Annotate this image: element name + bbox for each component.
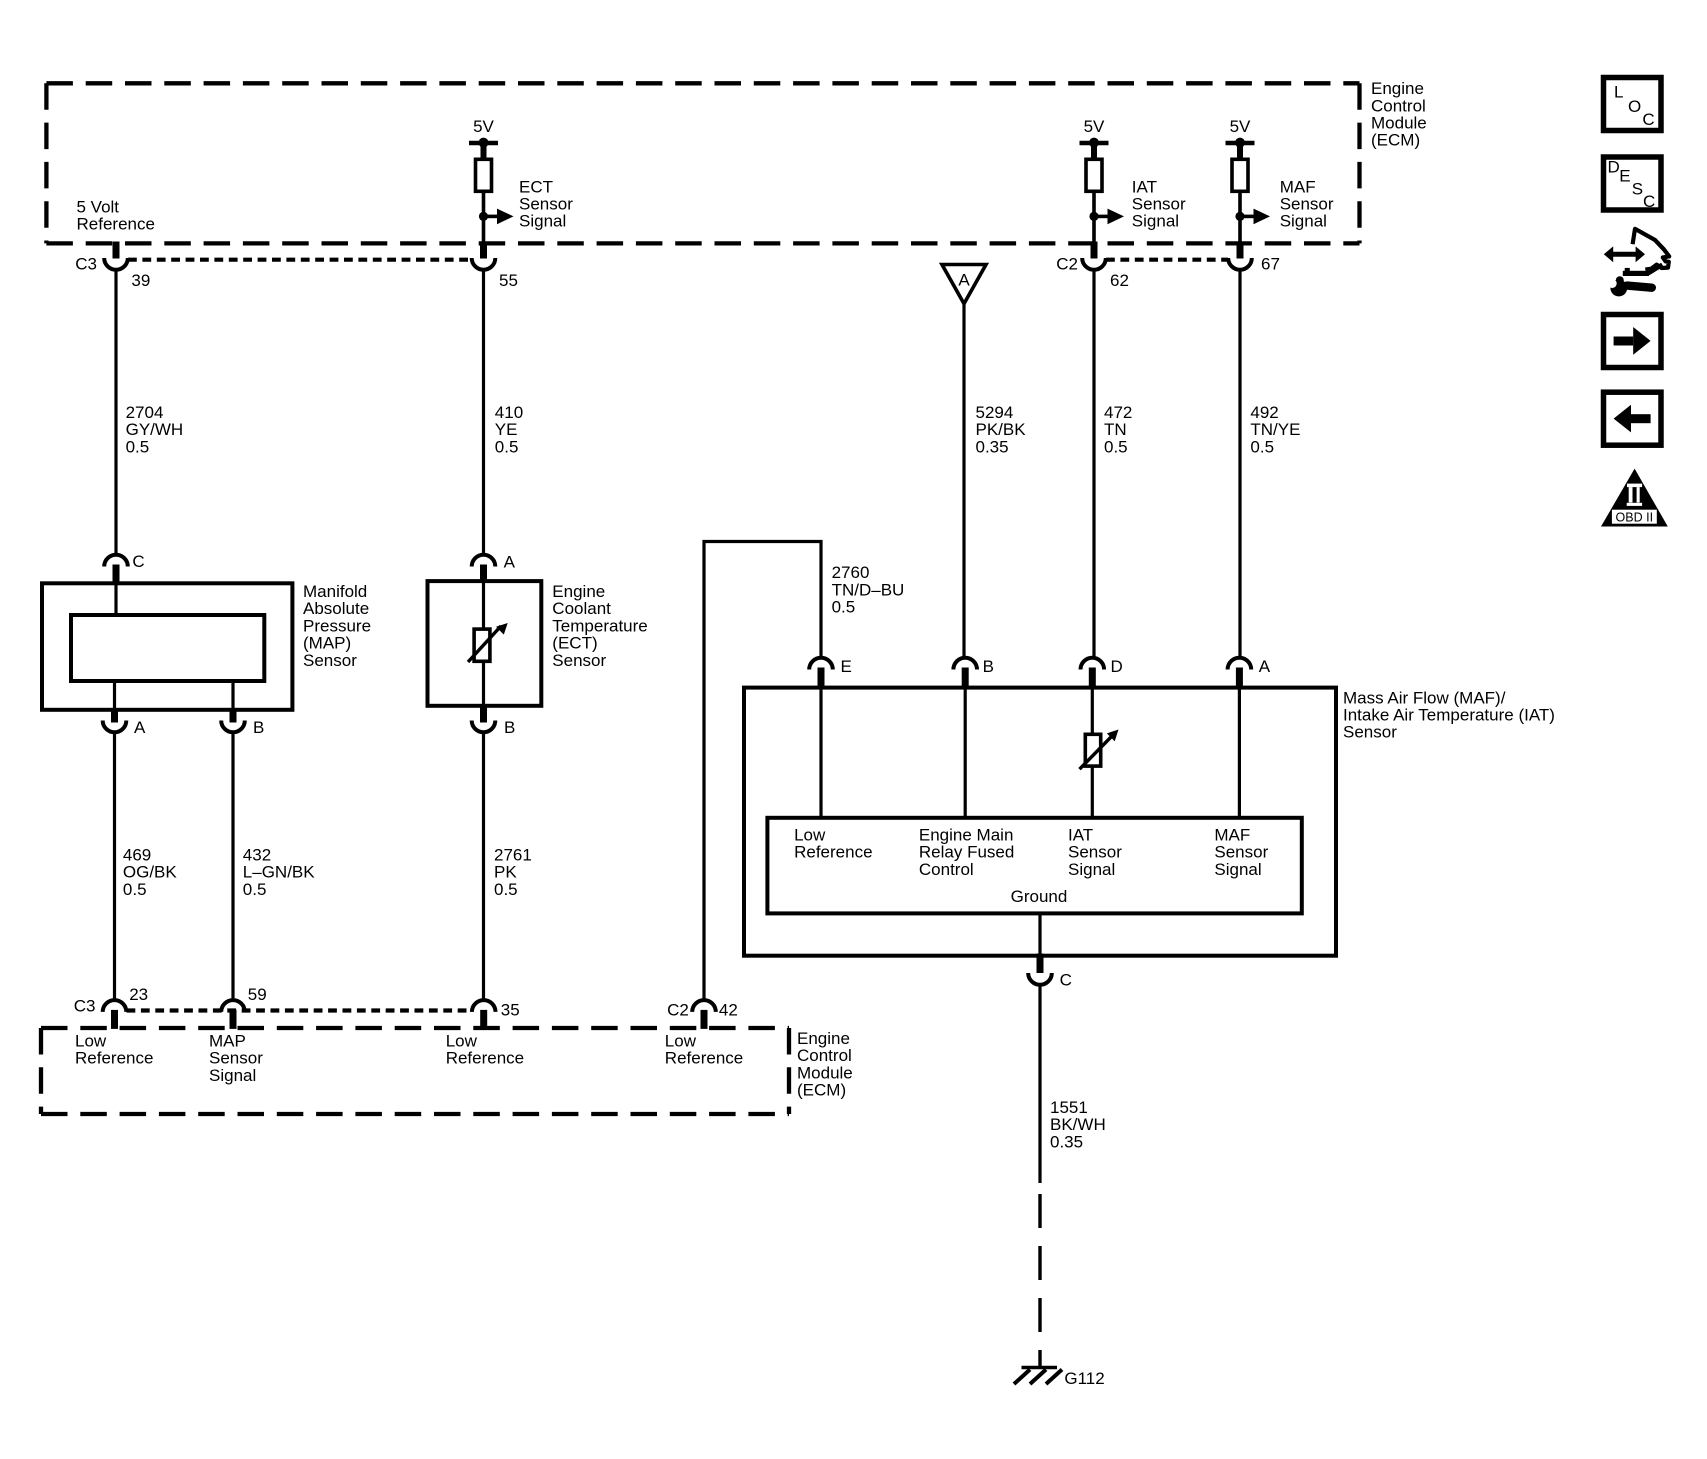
label Low Reference (pin 23) bbox=[75, 1031, 153, 1067]
label 5 Volt Reference bbox=[77, 198, 155, 234]
svg-text:Sensor: Sensor bbox=[1280, 195, 1334, 214]
MAF/IAT sensor outer box bbox=[744, 688, 1336, 956]
wire resistor to junction ECT bbox=[482, 191, 486, 243]
svg-text:(ECM): (ECM) bbox=[797, 1081, 846, 1100]
connector pin A (MAP) bbox=[103, 708, 127, 732]
label ECT signal bbox=[519, 177, 573, 230]
label MAF signal bbox=[1280, 177, 1334, 230]
label wire 469 bbox=[123, 846, 178, 899]
svg-text:B: B bbox=[504, 718, 515, 737]
svg-text:Control: Control bbox=[797, 1046, 852, 1065]
thermistor (ECT) bbox=[468, 623, 508, 662]
svg-text:Engine: Engine bbox=[552, 582, 605, 601]
svg-text:Relay Fused: Relay Fused bbox=[919, 843, 1014, 862]
icon DESC box bbox=[1604, 157, 1662, 211]
svg-text:5294: 5294 bbox=[976, 403, 1014, 422]
svg-text:Control: Control bbox=[1371, 96, 1426, 115]
svg-text:Coolant: Coolant bbox=[552, 599, 611, 618]
connector pin E (MAF/IAT) bbox=[809, 658, 833, 690]
svg-text:55: 55 bbox=[499, 271, 518, 290]
label MAF Sensor Signal (inner) bbox=[1214, 826, 1268, 879]
wire A internal bbox=[1238, 688, 1241, 819]
label Engine Control Module (ECM) bottom bbox=[797, 1029, 853, 1100]
svg-text:1551: 1551 bbox=[1050, 1098, 1088, 1117]
svg-text:5V: 5V bbox=[1230, 117, 1251, 136]
svg-text:Low: Low bbox=[794, 826, 826, 845]
svg-text:(ECM): (ECM) bbox=[1371, 131, 1420, 150]
svg-text:Sensor: Sensor bbox=[1068, 843, 1122, 862]
signal arrow IAT bbox=[1094, 209, 1124, 225]
svg-text:Sensor: Sensor bbox=[303, 651, 357, 670]
label Low Reference (pin 42) bbox=[665, 1031, 743, 1067]
svg-text:C: C bbox=[132, 552, 144, 571]
svg-text:35: 35 bbox=[501, 1001, 520, 1020]
dotted harness line 62 to 67 bbox=[1106, 258, 1228, 262]
svg-text:Low: Low bbox=[446, 1031, 478, 1050]
svg-text:TN: TN bbox=[1104, 420, 1127, 439]
svg-text:42: 42 bbox=[719, 1001, 738, 1020]
svg-text:Sensor: Sensor bbox=[552, 651, 606, 670]
svg-text:67: 67 bbox=[1261, 255, 1280, 274]
wire ECT internal bottom bbox=[482, 660, 485, 706]
connector pin pin 35 bbox=[472, 1000, 496, 1029]
label wire 2704 bbox=[126, 403, 184, 456]
svg-text:5 Volt: 5 Volt bbox=[77, 198, 120, 217]
svg-text:0.5: 0.5 bbox=[495, 437, 519, 456]
svg-text:23: 23 bbox=[129, 985, 148, 1004]
svg-text:0.5: 0.5 bbox=[494, 880, 518, 899]
icon back arrow box bbox=[1604, 392, 1662, 445]
svg-text:Low: Low bbox=[665, 1031, 697, 1050]
wire D internal upper bbox=[1091, 688, 1094, 736]
wire resistor to junction MAF bbox=[1238, 191, 1242, 243]
svg-text:C: C bbox=[1643, 192, 1655, 211]
svg-text:C: C bbox=[1642, 110, 1654, 129]
svg-text:Sensor: Sensor bbox=[1343, 723, 1397, 742]
svg-text:MAP: MAP bbox=[209, 1031, 246, 1050]
icon forward arrow box bbox=[1604, 315, 1662, 368]
svg-text:2761: 2761 bbox=[494, 846, 532, 865]
svg-text:A: A bbox=[1259, 657, 1271, 676]
svg-text:C3: C3 bbox=[74, 997, 96, 1016]
wire 1551 dashed continuation bbox=[1038, 1194, 1041, 1368]
svg-text:D: D bbox=[1111, 657, 1123, 676]
svg-text:BK/WH: BK/WH bbox=[1050, 1115, 1106, 1134]
svg-text:MAF: MAF bbox=[1280, 177, 1316, 196]
MAP sensor inner element bbox=[71, 615, 264, 681]
svg-text:Reference: Reference bbox=[77, 215, 155, 234]
connector pin C3 pin 39 bbox=[104, 242, 128, 270]
wire MAP pin A internal bbox=[113, 681, 116, 710]
label wire 1551 bbox=[1050, 1098, 1106, 1151]
svg-text:0.5: 0.5 bbox=[1104, 437, 1128, 456]
ECM bottom dashed box bbox=[41, 1028, 789, 1114]
svg-text:Signal: Signal bbox=[519, 212, 566, 231]
svg-text:A: A bbox=[958, 271, 970, 290]
junction dot IAT bbox=[1089, 212, 1098, 221]
svg-text:Signal: Signal bbox=[1132, 212, 1179, 231]
svg-text:0.5: 0.5 bbox=[832, 598, 856, 617]
svg-text:TN/YE: TN/YE bbox=[1250, 420, 1300, 439]
svg-text:0.35: 0.35 bbox=[976, 437, 1009, 456]
wire 492 TN/YE (MAF signal) bbox=[1238, 270, 1241, 658]
wire 2760 TN/D-BU (low ref, bent) bbox=[704, 542, 821, 1001]
svg-text:YE: YE bbox=[495, 420, 518, 439]
connector pin A (MAF/IAT) bbox=[1228, 658, 1252, 690]
label wire 2760 bbox=[832, 563, 905, 616]
svg-text:L: L bbox=[1614, 82, 1623, 101]
label Mass Air Flow (MAF)/Intake Air Temperature (IAT) Sensor bbox=[1343, 688, 1555, 741]
svg-text:B: B bbox=[253, 718, 264, 737]
svg-text:A: A bbox=[504, 553, 516, 572]
svg-text:Reference: Reference bbox=[665, 1049, 743, 1068]
svg-text:0.35: 0.35 bbox=[1050, 1132, 1083, 1151]
wire resistor to junction IAT bbox=[1092, 191, 1096, 243]
label wire 2761 bbox=[494, 846, 532, 899]
svg-text:Engine: Engine bbox=[797, 1029, 850, 1048]
connector pin B (MAP) bbox=[221, 708, 245, 732]
svg-text:Reference: Reference bbox=[794, 843, 872, 862]
connector pin C2 pin 62 bbox=[1082, 242, 1106, 270]
svg-text:Pressure: Pressure bbox=[303, 616, 371, 635]
5V supply MAF bbox=[1226, 117, 1255, 148]
connector pin B (MAF/IAT) bbox=[953, 658, 977, 690]
dotted harness line 39 to 55 bbox=[128, 258, 472, 262]
wire 469 OG/BK (MAP low ref) bbox=[113, 732, 116, 1000]
svg-text:(ECT): (ECT) bbox=[552, 634, 597, 653]
connector pin pin 59 bbox=[221, 1000, 245, 1029]
svg-text:Reference: Reference bbox=[75, 1049, 153, 1068]
icon vehicle diagnostic (car, double arrow, wrench) bbox=[1604, 229, 1669, 297]
label IAT signal bbox=[1132, 177, 1186, 230]
wire 432 L-GN/BK (MAP signal) bbox=[231, 732, 234, 1000]
svg-text:Module: Module bbox=[1371, 114, 1427, 133]
signal arrow MAF bbox=[1240, 209, 1270, 225]
label Engine Control Module (ECM) top bbox=[1371, 79, 1427, 150]
svg-text:D: D bbox=[1608, 157, 1620, 176]
svg-text:Mass Air Flow (MAF)/: Mass Air Flow (MAF)/ bbox=[1343, 688, 1506, 707]
resistor MAF pullup bbox=[1232, 159, 1248, 191]
svg-text:S: S bbox=[1632, 180, 1643, 199]
wire B internal bbox=[964, 688, 967, 819]
dotted harness line 23 to 35 bbox=[127, 1008, 472, 1012]
svg-text:59: 59 bbox=[248, 985, 267, 1004]
label IAT Sensor Signal (inner) bbox=[1068, 826, 1122, 879]
connector pin C (MAP) bbox=[104, 555, 128, 585]
wire D internal lower bbox=[1091, 765, 1094, 819]
5V supply ECT bbox=[469, 117, 498, 148]
svg-text:0.5: 0.5 bbox=[123, 880, 147, 899]
ECT sensor box bbox=[428, 581, 542, 706]
svg-text:0.5: 0.5 bbox=[126, 437, 150, 456]
svg-text:OG/BK: OG/BK bbox=[123, 863, 178, 882]
svg-text:C2: C2 bbox=[667, 1001, 689, 1020]
svg-text:Intake Air Temperature (IAT): Intake Air Temperature (IAT) bbox=[1343, 706, 1555, 725]
label wire 432 bbox=[243, 846, 315, 899]
svg-text:Signal: Signal bbox=[1214, 860, 1261, 879]
connector pin C2 pin 42 bbox=[692, 1000, 716, 1029]
connector pin D (MAF/IAT) bbox=[1081, 658, 1105, 690]
svg-text:A: A bbox=[134, 718, 146, 737]
junction dot MAF bbox=[1235, 212, 1244, 221]
resistor IAT pullup bbox=[1086, 159, 1102, 191]
resistor ECT pullup bbox=[476, 159, 492, 191]
svg-text:IAT: IAT bbox=[1068, 826, 1093, 845]
connector pin pin 67 bbox=[1228, 242, 1252, 270]
svg-text:Absolute: Absolute bbox=[303, 599, 369, 618]
label Manifold Absolute Pressure (MAP) Sensor bbox=[303, 582, 371, 670]
MAP sensor outer box bbox=[42, 583, 292, 710]
label Low Reference (pin 35) bbox=[446, 1031, 524, 1067]
svg-text:5V: 5V bbox=[473, 117, 494, 136]
svg-text:PK: PK bbox=[494, 863, 517, 882]
svg-text:L–GN/BK: L–GN/BK bbox=[243, 863, 315, 882]
wire 5294 PK/BK (relay control) bbox=[962, 304, 965, 658]
signal arrow ECT bbox=[484, 209, 514, 225]
off-page connector triangle A bbox=[942, 265, 986, 304]
svg-text:GY/WH: GY/WH bbox=[126, 420, 184, 439]
wire 472 TN (IAT signal) bbox=[1092, 270, 1095, 658]
5V supply IAT bbox=[1080, 117, 1109, 148]
wire 2761 PK (ECT low ref) bbox=[482, 732, 485, 1000]
svg-text:PK/BK: PK/BK bbox=[976, 420, 1027, 439]
svg-text:Signal: Signal bbox=[209, 1066, 256, 1085]
wire 2704 GY/WH (5V ref to MAP C) bbox=[114, 270, 117, 555]
svg-text:(MAP): (MAP) bbox=[303, 634, 351, 653]
label wire 492 bbox=[1250, 403, 1300, 456]
junction dot ECT bbox=[479, 212, 488, 221]
svg-text:Ground: Ground bbox=[1011, 887, 1068, 906]
svg-text:C2: C2 bbox=[1056, 255, 1078, 274]
icon LOC box bbox=[1604, 78, 1662, 131]
svg-text:O: O bbox=[1628, 97, 1641, 116]
connector pin C (MAF/IAT ground) bbox=[1028, 954, 1052, 985]
label Engine Coolant Temperature (ECT) Sensor bbox=[552, 582, 647, 670]
label wire 5294 bbox=[976, 403, 1027, 456]
svg-text:Signal: Signal bbox=[1068, 860, 1115, 879]
label wire 472 bbox=[1104, 403, 1132, 456]
svg-text:Reference: Reference bbox=[446, 1049, 524, 1068]
wire ground internal bbox=[1038, 913, 1041, 955]
svg-text:2704: 2704 bbox=[126, 403, 164, 422]
connector pin pin 55 bbox=[472, 242, 496, 270]
svg-text:Signal: Signal bbox=[1280, 212, 1327, 231]
svg-text:Low: Low bbox=[75, 1031, 107, 1050]
svg-text:ECT: ECT bbox=[519, 177, 553, 196]
svg-text:E: E bbox=[841, 657, 852, 676]
svg-text:C: C bbox=[1060, 971, 1072, 990]
svg-text:Sensor: Sensor bbox=[1214, 843, 1268, 862]
svg-text:0.5: 0.5 bbox=[243, 880, 267, 899]
svg-text:TN/D–BU: TN/D–BU bbox=[832, 580, 905, 599]
svg-text:410: 410 bbox=[495, 403, 523, 422]
svg-text:39: 39 bbox=[131, 271, 150, 290]
wire MAP C internal bbox=[114, 583, 117, 617]
svg-text:IAT: IAT bbox=[1132, 177, 1157, 196]
label wire 410 bbox=[495, 403, 523, 456]
wire ECT internal top bbox=[482, 581, 485, 631]
svg-text:0.5: 0.5 bbox=[1250, 437, 1274, 456]
svg-text:MAF: MAF bbox=[1214, 826, 1250, 845]
IAT thermistor bbox=[1080, 730, 1119, 770]
ECM top dashed box bbox=[46, 83, 1359, 243]
wire 5V to resistor IAT bbox=[1091, 143, 1097, 160]
svg-text:Manifold: Manifold bbox=[303, 582, 367, 601]
svg-text:E: E bbox=[1619, 167, 1630, 186]
svg-text:62: 62 bbox=[1110, 271, 1129, 290]
label MAP Sensor Signal (pin 59) bbox=[209, 1031, 263, 1084]
svg-text:Temperature: Temperature bbox=[552, 616, 647, 635]
wire 5V to resistor MAF bbox=[1237, 143, 1243, 160]
connector pin C3 pin 23 bbox=[103, 1000, 127, 1029]
wire E internal bbox=[819, 688, 822, 819]
svg-text:Sensor: Sensor bbox=[1132, 195, 1186, 214]
icon OBD II triangle bbox=[1601, 469, 1668, 527]
svg-text:B: B bbox=[983, 657, 994, 676]
svg-text:5V: 5V bbox=[1084, 117, 1105, 136]
svg-text:OBD II: OBD II bbox=[1616, 511, 1654, 525]
label Low Reference (MAF/IAT) bbox=[794, 826, 872, 862]
svg-text:Sensor: Sensor bbox=[519, 195, 573, 214]
svg-text:Module: Module bbox=[797, 1063, 853, 1082]
svg-text:Engine: Engine bbox=[1371, 79, 1424, 98]
svg-text:C3: C3 bbox=[75, 255, 97, 274]
svg-text:Engine Main: Engine Main bbox=[919, 826, 1014, 845]
connector pin A (ECT) bbox=[472, 555, 496, 583]
connector pin B (ECT) bbox=[472, 704, 496, 732]
svg-text:Sensor: Sensor bbox=[209, 1049, 263, 1068]
svg-text:Control: Control bbox=[919, 860, 974, 879]
wire 5V to resistor ECT bbox=[481, 143, 487, 160]
wire MAP pin B internal bbox=[231, 681, 234, 710]
svg-text:469: 469 bbox=[123, 846, 151, 865]
wire 410 YE (ECT signal) bbox=[482, 270, 485, 555]
label Engine Main Relay Fused Control bbox=[919, 826, 1014, 879]
MAF/IAT inner terminal box bbox=[767, 818, 1301, 914]
svg-text:492: 492 bbox=[1250, 403, 1278, 422]
svg-text:G112: G112 bbox=[1064, 1369, 1104, 1388]
wire 1551 BK/WH upper bbox=[1038, 985, 1041, 1183]
ground symbol G112 bbox=[1014, 1368, 1062, 1385]
svg-text:2760: 2760 bbox=[832, 563, 870, 582]
svg-text:472: 472 bbox=[1104, 403, 1132, 422]
svg-text:432: 432 bbox=[243, 846, 271, 865]
